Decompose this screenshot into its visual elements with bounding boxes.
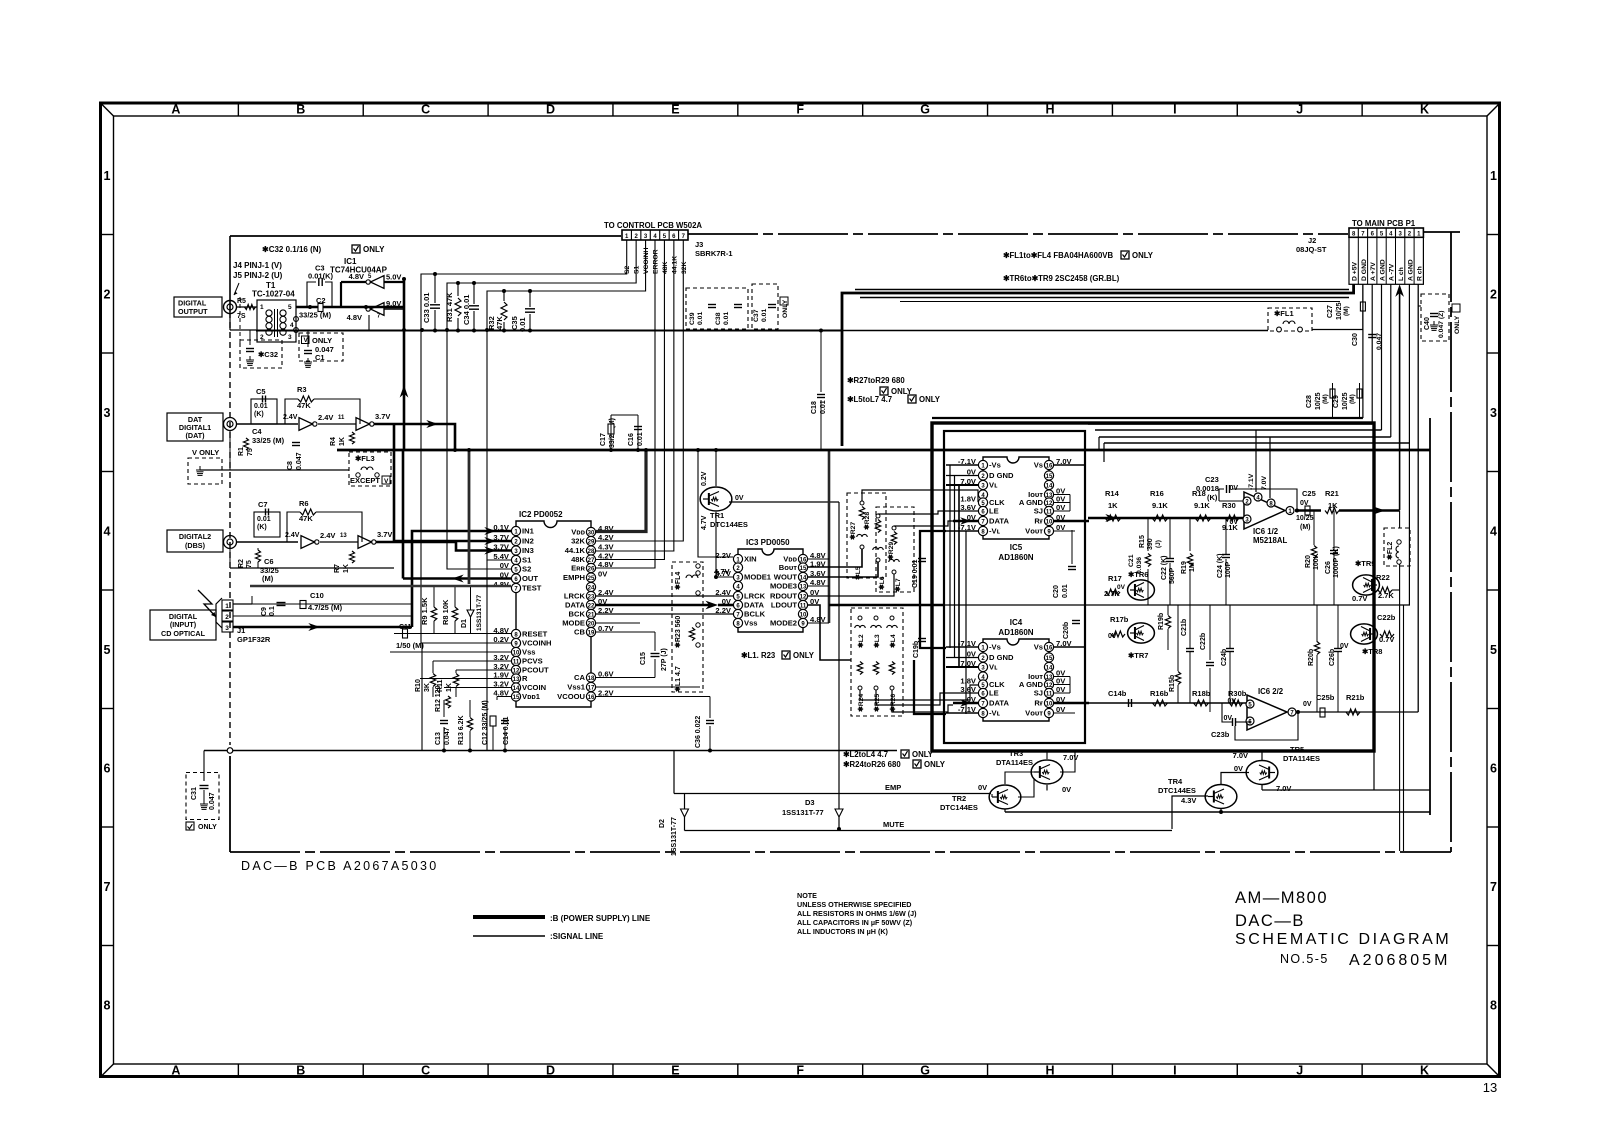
svg-text:R1: R1 [238,447,245,456]
svg-text:R16b: R16b [1150,689,1169,698]
svg-text:0V: 0V [1223,715,1232,722]
svg-text:32K: 32K [681,261,688,274]
svg-text:✱R26: ✱R26 [889,694,897,712]
svg-text:(J): (J) [1155,540,1162,548]
svg-text:9.1K: 9.1K [1194,501,1210,510]
svg-text:6: 6 [104,761,111,775]
svg-text:22: 22 [588,603,595,609]
svg-text:V: V [384,478,389,485]
svg-text:LE: LE [989,689,999,698]
svg-text:ONLY: ONLY [782,299,789,318]
svg-text:AD1860N: AD1860N [998,628,1033,637]
svg-text:R: R [522,674,528,683]
svg-text:D: D [546,1064,555,1078]
svg-text:C: C [421,103,430,117]
svg-text:12: 12 [800,594,807,600]
svg-text:A206805M: A206805M [1349,952,1450,969]
svg-text:5: 5 [288,304,292,311]
svg-text:TO CONTROL PCB W502A: TO CONTROL PCB W502A [604,221,702,230]
svg-text:0.0018: 0.0018 [1196,484,1219,493]
svg-text:R8 10K: R8 10K [441,599,450,625]
svg-text:C28: C28 [1306,395,1313,408]
svg-text:0.01: 0.01 [518,317,527,332]
svg-text:C23b: C23b [1211,730,1230,739]
svg-text:0.01: 0.01 [761,309,768,322]
svg-text:4.8V: 4.8V [349,272,364,281]
svg-text:H: H [1045,103,1054,117]
svg-text:11: 11 [1046,691,1053,697]
svg-text:EMP: EMP [885,783,901,792]
svg-text:R20: R20 [1305,555,1312,568]
svg-text:10: 10 [1046,701,1053,707]
svg-text:✱C32: ✱C32 [258,350,278,359]
svg-text:13: 13 [800,584,807,590]
svg-text:M5218AL: M5218AL [1253,536,1287,545]
svg-text:IC4: IC4 [1010,618,1023,627]
svg-text:RESET: RESET [522,630,548,639]
svg-text:IN1: IN1 [522,527,535,536]
svg-text:0V: 0V [1340,643,1349,650]
svg-text:C: C [421,1064,430,1078]
svg-text:R22: R22 [1376,573,1390,582]
svg-text:1: 1 [104,169,111,183]
svg-text:44.1K: 44.1K [671,256,678,274]
svg-text:3: 3 [225,625,229,632]
svg-text:DTC144ES: DTC144ES [1158,786,1196,795]
svg-text:J3: J3 [695,240,703,249]
svg-text:27P (J): 27P (J) [661,648,668,671]
svg-text:Eʀʀ: Eʀʀ [571,564,585,573]
svg-text:I: I [1173,103,1176,117]
svg-text:✱L6: ✱L6 [878,576,886,590]
svg-text:C25b: C25b [1316,693,1335,702]
svg-text:2.4V: 2.4V [320,531,335,540]
svg-text:33/25 (M): 33/25 (M) [252,436,285,445]
svg-text:4.8V: 4.8V [598,560,615,569]
svg-text:14: 14 [1046,665,1053,671]
svg-text:G: G [920,103,930,117]
svg-text:1SS131T-77: 1SS131T-77 [476,594,483,631]
svg-text:9.0V: 9.0V [386,299,401,308]
svg-text:✱L2: ✱L2 [857,634,865,648]
svg-text:(K): (K) [257,524,267,531]
svg-text:15: 15 [1046,656,1053,662]
svg-text:5.0V: 5.0V [386,273,401,282]
svg-text:R12 120: R12 120 [435,685,442,712]
svg-text:15: 15 [513,695,520,701]
svg-text:CB: CB [574,628,585,637]
svg-text:DATA: DATA [989,699,1009,708]
svg-text:47K: 47K [299,514,313,523]
svg-text:IN2: IN2 [522,537,534,546]
svg-text:✱L5: ✱L5 [854,566,862,580]
svg-text:AM—M800: AM—M800 [1235,889,1328,907]
svg-text:DATA: DATA [744,601,764,610]
svg-text:J2: J2 [1308,236,1316,245]
svg-text:C1: C1 [315,353,325,362]
svg-text:CD OPTICAL: CD OPTICAL [161,629,206,638]
svg-text:-Vs: -Vs [989,461,1001,470]
svg-text:R16: R16 [1150,489,1164,498]
svg-text:✱FL3: ✱FL3 [355,454,375,463]
svg-text:A: A [171,1064,180,1078]
svg-text:C15: C15 [640,652,647,665]
svg-text:✱TR6: ✱TR6 [1128,570,1148,579]
svg-text:TR5: TR5 [1290,745,1304,754]
svg-text:ONLY: ONLY [1454,315,1461,334]
svg-text:DATA: DATA [565,601,585,610]
svg-text:7.0V: 7.0V [1261,476,1268,490]
svg-text:C17: C17 [600,433,607,446]
svg-text:VCOINH: VCOINH [522,639,552,648]
svg-text:✱L1. R23: ✱L1. R23 [741,651,776,660]
svg-text:(INPUT): (INPUT) [170,620,197,629]
svg-text:11: 11 [1046,509,1053,515]
svg-text:ONLY: ONLY [198,824,217,831]
svg-text:D GND: D GND [989,653,1014,662]
svg-text::SIGNAL LINE: :SIGNAL LINE [550,932,604,941]
svg-text:4.2V: 4.2V [598,533,615,542]
svg-text:3K: 3K [424,683,431,692]
svg-text:✱L7: ✱L7 [894,578,902,592]
svg-text:1SS131T-77: 1SS131T-77 [671,817,678,856]
svg-text:0V: 0V [1108,633,1117,640]
svg-text:ONLY: ONLY [924,760,946,769]
svg-text:IN3: IN3 [522,546,534,555]
svg-text:IC2 PD0052: IC2 PD0052 [519,510,563,519]
svg-text:3.7V: 3.7V [377,530,392,539]
svg-text:29: 29 [588,539,595,545]
svg-text:10: 10 [1046,519,1053,525]
svg-text:16: 16 [1046,463,1053,469]
svg-text:DATA: DATA [989,517,1009,526]
svg-text:Vʟ: Vʟ [989,663,998,672]
svg-text:Vᴏᴜᴛ: Vᴏᴜᴛ [1025,527,1043,536]
svg-text:-7.1V: -7.1V [1248,473,1255,490]
svg-text:LRCK: LRCK [744,592,766,601]
svg-text:R6: R6 [299,499,309,508]
svg-text:PCVS: PCVS [522,657,543,666]
svg-text:0V: 0V [598,570,608,579]
svg-text:Vss: Vss [522,648,536,657]
svg-text:8: 8 [104,998,111,1012]
svg-text:IC6 2/2: IC6 2/2 [1258,687,1284,696]
svg-text:10: 10 [513,650,520,656]
svg-text:DIGITAL2: DIGITAL2 [179,532,211,541]
svg-text:16: 16 [1046,645,1053,651]
svg-text:(M): (M) [1322,394,1329,404]
svg-text:4.8V: 4.8V [347,313,362,322]
svg-text:33/25 (M): 33/25 (M) [299,311,332,320]
svg-text:2: 2 [104,287,111,301]
svg-text:1K: 1K [339,437,346,446]
svg-text:23: 23 [588,594,595,600]
svg-text:G: G [920,1064,930,1078]
svg-text:2.2V: 2.2V [715,551,732,560]
svg-text:0.01: 0.01 [254,403,268,410]
svg-text:✱TR6to✱TR9 2SC2458 (GR.BL): ✱TR6to✱TR9 2SC2458 (GR.BL) [1003,274,1120,283]
svg-text:R19b: R19b [1158,613,1165,630]
svg-text:D3: D3 [805,798,815,807]
svg-text:L ch: L ch [1398,267,1405,281]
svg-text:(K): (K) [1207,493,1218,502]
svg-text:DAC—B: DAC—B [1235,912,1305,930]
svg-text:Vs: Vs [1034,643,1043,652]
svg-text:✱FL4: ✱FL4 [674,572,682,590]
svg-text:ONLY: ONLY [363,245,385,254]
svg-text:✱FL1to✱FL4 FBA04HA600VB: ✱FL1to✱FL4 FBA04HA600VB [1003,251,1113,260]
svg-text:C20b: C20b [1063,622,1070,639]
svg-text:7: 7 [104,880,111,894]
svg-text:4.7V: 4.7V [714,567,731,576]
svg-text:Vss1: Vss1 [567,683,586,692]
svg-text:44.1K: 44.1K [565,546,586,555]
svg-text:28: 28 [588,549,595,555]
svg-text:1: 1 [225,603,229,610]
svg-text:1: 1 [1490,169,1497,183]
svg-text:C14b: C14b [1108,689,1127,698]
svg-text:C29: C29 [1333,395,1340,408]
svg-text:Bᴏᴜᴛ: Bᴏᴜᴛ [779,563,798,572]
svg-text:R15: R15 [1139,535,1146,548]
svg-text:0V: 0V [1117,584,1126,591]
svg-text:R2: R2 [238,559,245,568]
svg-text:13: 13 [1483,1080,1497,1095]
svg-text:C10: C10 [310,591,324,600]
svg-text:2.4V: 2.4V [285,532,300,539]
svg-text:75: 75 [246,560,253,568]
svg-text:3: 3 [1490,406,1497,420]
svg-text:5.4V: 5.4V [493,552,510,561]
svg-text:0V: 0V [1229,519,1238,526]
svg-text:-Vʟ: -Vʟ [989,709,1001,718]
svg-text:C21: C21 [1128,554,1135,567]
svg-text:0.047: 0.047 [296,452,303,470]
svg-text:C36 0.022: C36 0.022 [695,716,702,748]
svg-text:08JQ-ST: 08JQ-ST [1296,245,1327,254]
svg-text:48K: 48K [662,261,669,274]
svg-text:4: 4 [290,322,294,329]
svg-text:10/25: 10/25 [1342,392,1349,410]
svg-text:BCLK: BCLK [744,610,766,619]
svg-text:R14: R14 [1105,489,1120,498]
svg-text:MODE3: MODE3 [770,582,797,591]
svg-text:2.4V: 2.4V [283,414,298,421]
svg-text:✱L2toL4 4.7: ✱L2toL4 4.7 [843,750,888,759]
svg-text:R15b: R15b [1169,675,1176,692]
svg-text:TEST: TEST [522,584,542,593]
svg-text:C25: C25 [1302,489,1316,498]
svg-text:(DAT): (DAT) [185,431,205,440]
svg-text:0.047: 0.047 [209,792,216,810]
svg-text:0.01: 0.01 [1062,584,1069,598]
svg-text:13: 13 [340,533,347,539]
svg-text:MODE2: MODE2 [770,619,797,628]
svg-text:10/25: 10/25 [1296,515,1314,522]
svg-text:75: 75 [247,448,254,456]
svg-text:✱C32 0.1/16 (N): ✱C32 0.1/16 (N) [262,245,322,254]
svg-text:SJ: SJ [1034,689,1043,698]
svg-text:6: 6 [1490,761,1497,775]
svg-text:C40: C40 [1424,317,1431,330]
svg-text:✱FL2: ✱FL2 [1386,542,1394,560]
svg-text:0V: 0V [1303,701,1312,708]
svg-text:ONLY: ONLY [1132,251,1154,260]
svg-text:I: I [1173,1064,1176,1078]
svg-text:4.3V: 4.3V [598,543,615,552]
svg-text:IC5: IC5 [1010,543,1023,552]
svg-text:Vᴅᴅ: Vᴅᴅ [571,528,585,537]
svg-text:R30: R30 [1222,501,1236,510]
svg-text:TR4: TR4 [1168,777,1183,786]
svg-text:ONLY: ONLY [919,395,941,404]
svg-text:26: 26 [588,566,595,572]
svg-text:V ONLY: V ONLY [192,448,219,457]
svg-text:✱L3: ✱L3 [873,634,881,648]
svg-text:R10: R10 [415,679,422,692]
svg-text:S2: S2 [522,565,531,574]
svg-text:1K: 1K [343,564,350,573]
svg-text:NOTE: NOTE [797,891,817,900]
svg-text:XIN: XIN [744,555,757,564]
svg-text:C38: C38 [715,312,722,325]
svg-text:C22b: C22b [1200,633,1207,650]
svg-text:0V: 0V [978,783,987,792]
svg-text:R31 47K: R31 47K [445,292,454,322]
svg-text:C27: C27 [1327,305,1334,318]
svg-text:C39: C39 [689,312,696,325]
svg-text:17: 17 [588,685,595,691]
svg-text:SCHEMATIC DIAGRAM: SCHEMATIC DIAGRAM [1235,931,1451,948]
svg-text:LDOUT: LDOUT [771,601,798,610]
svg-text:0.01: 0.01 [257,516,271,523]
svg-text:0.047: 0.047 [444,727,451,745]
svg-text:SBRK7R-1: SBRK7R-1 [695,249,733,258]
svg-text:✱R25: ✱R25 [873,694,881,712]
svg-text:C19 0.01: C19 0.01 [912,559,919,588]
svg-text:D: D [546,103,555,117]
svg-text:✱TR9: ✱TR9 [1355,559,1375,568]
svg-text:13: 13 [513,677,520,683]
svg-text:25: 25 [588,576,595,582]
svg-text:R4: R4 [330,437,337,446]
svg-text:3.7V: 3.7V [375,412,390,421]
svg-text:0.01(K): 0.01(K) [308,272,334,281]
svg-text:A +7V: A +7V [1370,262,1377,281]
svg-text:14: 14 [800,575,807,581]
svg-text:2.4V: 2.4V [318,413,333,422]
svg-text:✱R24: ✱R24 [857,694,865,712]
svg-text:A: A [171,103,180,117]
svg-text:0.01: 0.01 [723,312,730,325]
svg-text:24: 24 [588,585,595,591]
svg-text:C26: C26 [1325,561,1332,574]
svg-text:EMPH: EMPH [563,573,585,582]
svg-text:1: 1 [260,304,264,311]
svg-text:Rғ: Rғ [1034,517,1043,526]
svg-text:47K: 47K [297,401,311,410]
svg-text:-Vʟ: -Vʟ [989,527,1001,536]
svg-text:R ch: R ch [1417,266,1424,281]
svg-text:CA: CA [574,673,585,682]
svg-text:J4 PINJ-1 (V): J4 PINJ-1 (V) [233,261,282,270]
svg-text:B: B [296,103,305,117]
svg-text:0V: 0V [500,561,510,570]
svg-text:BCK: BCK [569,610,586,619]
svg-text:C18: C18 [811,401,818,414]
svg-text:D GND: D GND [989,471,1014,480]
svg-text:EXCEPT: EXCEPT [350,476,380,485]
svg-text:1SS131T-77: 1SS131T-77 [782,808,824,817]
svg-text:TC-1027-04: TC-1027-04 [252,290,295,299]
svg-text:OUTPUT: OUTPUT [178,307,208,316]
svg-text:(M): (M) [262,574,274,583]
svg-text:0.7V: 0.7V [1379,635,1394,644]
svg-text:4.3V: 4.3V [1181,796,1196,805]
svg-text:R20b: R20b [1308,649,1315,666]
svg-text:D GND: D GND [1361,259,1368,281]
svg-text:MUTE: MUTE [883,820,904,829]
svg-text:R7: R7 [334,564,341,573]
svg-text:✱R27: ✱R27 [849,522,857,540]
svg-text:✱R23 560: ✱R23 560 [674,616,682,648]
svg-text:MODE1: MODE1 [744,573,772,582]
svg-text:OUT: OUT [522,574,538,583]
svg-text:3: 3 [104,406,111,420]
svg-text::B (POWER SUPPLY) LINE: :B (POWER SUPPLY) LINE [550,914,651,923]
svg-text:J5 PINJ-2 (U): J5 PINJ-2 (U) [233,271,283,280]
svg-text:2.4V: 2.4V [715,588,732,597]
svg-text:Vs: Vs [1034,461,1043,470]
svg-text:C4: C4 [252,427,262,436]
svg-text:15: 15 [1046,474,1053,480]
svg-text:11: 11 [800,603,807,609]
svg-text:(M): (M) [1300,524,1311,531]
svg-text:C23: C23 [1205,475,1219,484]
svg-text:10/25: 10/25 [1336,302,1343,320]
svg-text:RDOUT: RDOUT [770,592,797,601]
svg-text:4: 4 [1490,524,1497,538]
svg-text:0V: 0V [722,597,732,606]
svg-text:14: 14 [1046,483,1053,489]
svg-text:C9: C9 [261,607,268,616]
svg-text:C13: C13 [435,732,442,745]
svg-text:(K): (K) [254,411,264,418]
svg-text:LRCK: LRCK [564,592,586,601]
svg-text:D +5V: D +5V [1351,261,1358,281]
svg-text:Vss: Vss [744,619,758,628]
svg-text:R17: R17 [1108,574,1122,583]
svg-text:1K: 1K [1108,501,1118,510]
svg-text:S1: S1 [634,265,641,274]
svg-text:1/50 (M): 1/50 (M) [396,641,424,650]
svg-text:LE: LE [989,507,999,516]
svg-text:C6: C6 [264,557,274,566]
svg-text:7S: 7S [237,313,246,320]
svg-text:ONLY: ONLY [793,651,815,660]
svg-text:11: 11 [338,415,345,421]
svg-text:0V: 0V [1234,764,1243,773]
svg-text:A GND: A GND [1407,259,1414,281]
svg-text:DTA114ES: DTA114ES [1283,754,1320,763]
svg-text:0V: 0V [1227,698,1236,705]
svg-text:0.7V: 0.7V [1352,594,1367,603]
svg-text:C8: C8 [287,461,294,470]
svg-text:IC3 PD0050: IC3 PD0050 [746,538,790,547]
svg-text:10: 10 [800,612,807,618]
svg-text:C37: C37 [753,309,760,322]
svg-text:✱R29: ✱R29 [887,542,895,560]
